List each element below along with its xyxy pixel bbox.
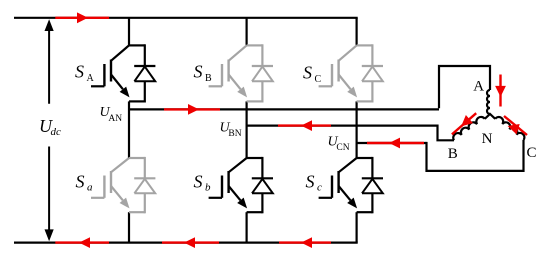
svg-text:S: S [306, 171, 315, 191]
svg-text:S: S [194, 62, 203, 82]
Udc measurement arrow [45, 19, 54, 241]
wire leg A mid [128, 101, 130, 158]
label U_dc [39, 116, 61, 138]
label S_B [194, 62, 213, 84]
wire leg A lower [128, 212, 130, 242]
svg-text:A: A [87, 73, 95, 84]
label S_C [303, 63, 322, 85]
red arrow winding A [495, 75, 506, 107]
svg-text:S: S [76, 171, 85, 191]
wire phase B to winding [438, 125, 455, 141]
label node A [473, 79, 484, 95]
svg-text:C: C [315, 74, 322, 85]
wire bottom DC- rail [14, 242, 358, 244]
inductor winding C [495, 117, 524, 140]
wire leg C upper [356, 18, 358, 46]
wire top DC+ rail [14, 17, 358, 19]
wire phase B line (U_BN) [247, 124, 438, 126]
IGBT S_C with diode (off, gray) [319, 44, 383, 102]
svg-text:A: A [473, 79, 484, 95]
inductor winding A [487, 90, 490, 114]
wire leg C mid [356, 101, 358, 158]
label node N [482, 131, 493, 147]
red arrow winding B [452, 113, 476, 134]
red arrow winding C [504, 116, 527, 135]
label node C [526, 145, 536, 161]
node N star point Y [485, 114, 495, 119]
svg-text:c: c [317, 182, 322, 194]
label S_b [194, 171, 212, 193]
IGBT S_B with diode (off, gray) [209, 44, 273, 102]
svg-text:CN: CN [336, 143, 349, 153]
IGBT S_a with diode (off, gray) [91, 157, 155, 213]
svg-text:S: S [75, 62, 84, 82]
svg-text:a: a [87, 182, 93, 194]
red current arrow top rail [55, 12, 109, 23]
red current arrow bottom rail 2 [162, 237, 219, 248]
label U_AN [100, 105, 123, 124]
IGBT S_b with diode (on) [209, 157, 273, 213]
IGBT S_A with diode (on) [91, 44, 155, 102]
svg-text:dc: dc [51, 126, 62, 138]
svg-text:B: B [448, 146, 458, 162]
label U_BN [220, 121, 242, 140]
wire leg C lower [356, 212, 358, 242]
svg-text:S: S [194, 171, 203, 191]
svg-text:C: C [526, 145, 536, 161]
label node B [448, 146, 458, 162]
red current arrow bottom rail 1 [55, 237, 109, 248]
wire leg B upper [246, 18, 248, 46]
svg-text:AN: AN [108, 114, 122, 124]
wire phase C line (U_CN) [357, 142, 427, 144]
red current arrow bottom rail 3 [279, 237, 331, 248]
wire leg A upper [128, 18, 130, 46]
IGBT S_c with diode (on) [319, 157, 383, 213]
red current arrow U_BN [278, 120, 331, 131]
svg-text:S: S [303, 63, 312, 83]
svg-text:b: b [205, 182, 211, 194]
inductor winding B [453, 117, 485, 140]
label S_c [306, 171, 323, 193]
label S_a [76, 171, 94, 193]
wire phase C to winding [427, 140, 524, 171]
svg-text:N: N [482, 131, 493, 147]
red current arrow U_AN [164, 104, 220, 115]
label S_A [75, 62, 95, 84]
wire leg B lower [246, 212, 248, 242]
wire phase A to winding [439, 66, 490, 108]
red current arrow U_CN [367, 138, 424, 149]
wire leg B mid [246, 101, 248, 158]
svg-text:BN: BN [228, 129, 241, 139]
label U_CN [328, 135, 350, 154]
svg-text:B: B [205, 73, 212, 84]
wire phase A line (U_AN) [129, 108, 439, 110]
